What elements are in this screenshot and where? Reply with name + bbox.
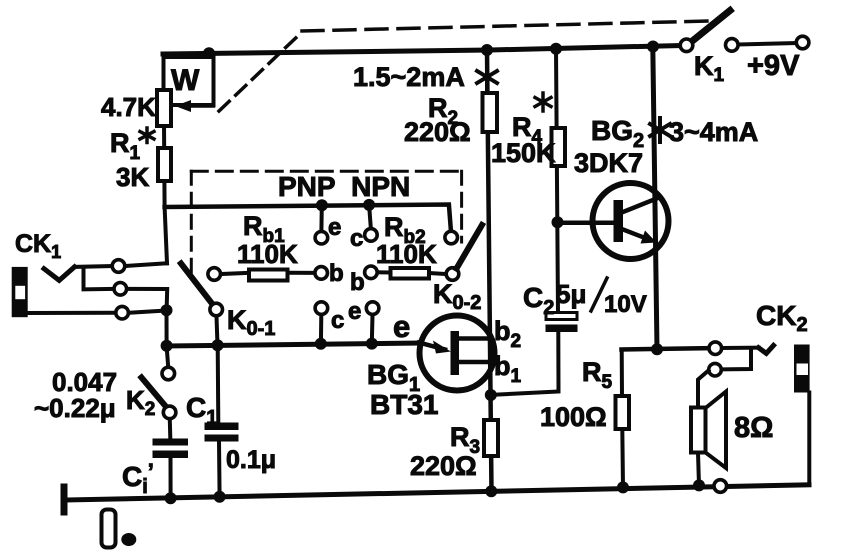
svg-text:3K: 3K bbox=[116, 162, 149, 192]
node BG2 collector top junction bbox=[647, 41, 659, 53]
resistor Rb1 110K bbox=[221, 273, 249, 274]
wire CK1 sleeve to lower node bbox=[129, 311, 166, 313]
node b1 / R3 / C2 junction bbox=[485, 389, 497, 401]
svg-text:e: e bbox=[348, 298, 361, 325]
svg-text:100Ω: 100Ω bbox=[540, 402, 607, 432]
node C1 top junction bbox=[212, 339, 224, 351]
wire speaker bottom bbox=[698, 453, 699, 486]
node CK1 sleeve terminal bbox=[116, 306, 129, 319]
ground terminal bar bbox=[61, 484, 68, 516]
svg-text:W: W bbox=[171, 64, 200, 97]
wire BG1 b1 stub bbox=[459, 360, 491, 365]
svg-text:+9V: +9V bbox=[747, 50, 800, 82]
node Ci ground junction bbox=[165, 492, 177, 504]
node K0-1 pivot bbox=[210, 303, 223, 316]
node c upper stub junction bbox=[363, 199, 375, 211]
wire BG2 base bbox=[558, 221, 614, 226]
svg-text:110K: 110K bbox=[376, 239, 437, 269]
node contact c lower bbox=[315, 302, 328, 315]
resistor R2 220 bbox=[483, 93, 498, 132]
node R4 top junction bbox=[550, 43, 562, 55]
wire CK1 tip to input line bbox=[126, 263, 168, 266]
node c lower stub junction bbox=[315, 338, 327, 350]
node CK2 break terminal bbox=[709, 363, 722, 376]
svg-text:c: c bbox=[350, 225, 363, 252]
node BG2 base junction bbox=[552, 216, 564, 228]
svg-text:8Ω: 8Ω bbox=[734, 412, 773, 444]
star mark R1 bbox=[140, 128, 154, 143]
jack CK1 break contact bbox=[84, 268, 114, 289]
wire left input branch (rail to CK1 tip) bbox=[164, 54, 168, 263]
capacitor C2 5u/10V bbox=[546, 313, 577, 320]
wire e lower stub bbox=[370, 315, 375, 344]
node C1 ground junction bbox=[214, 491, 226, 503]
node input lower junction bbox=[161, 304, 173, 316]
potentiometer wiper arrow bbox=[190, 104, 214, 108]
node contact c upper bbox=[365, 229, 378, 242]
resistor R1 3K bbox=[158, 148, 171, 181]
wire top supply rail bbox=[163, 46, 680, 55]
wire center column (R2 / base / R3) bbox=[487, 51, 492, 492]
node contact K0-2 upper bbox=[445, 231, 458, 244]
svg-text:PNP NPN: PNP NPN bbox=[278, 171, 410, 202]
resistor 4.7K bbox=[157, 90, 171, 126]
wire CK1 break terminal to lower node bbox=[127, 289, 167, 310]
resistor R4 150K bbox=[552, 128, 566, 166]
jack CK1 tip contact bbox=[44, 267, 75, 281]
svg-text:0.1μ: 0.1μ bbox=[226, 446, 276, 474]
potentiometer W bbox=[164, 57, 214, 105]
svg-text:3~4mA: 3~4mA bbox=[669, 117, 758, 147]
wire CK2 sleeve to ground rail bbox=[807, 393, 811, 486]
node Rb1 right terminal b bbox=[315, 267, 328, 280]
switch K2 upper contact bbox=[167, 346, 169, 367]
node R5 ground junction bbox=[617, 481, 629, 493]
node CK1 tip terminal bbox=[112, 260, 125, 273]
BG1 emitter arrow bbox=[419, 343, 445, 350]
node BG2 emitter junction bbox=[651, 343, 663, 355]
node CK1 break terminal bbox=[114, 283, 127, 296]
wire emitter row bbox=[167, 343, 420, 346]
wire base selector top row bbox=[165, 205, 451, 231]
jack CK2 tip contact bbox=[722, 346, 758, 350]
node Rb2 right terminal / K0-2 pivot bbox=[446, 268, 459, 281]
svg-text:e: e bbox=[328, 214, 341, 241]
wire R4 column bbox=[556, 49, 558, 313]
node battery terminal bbox=[796, 36, 809, 49]
wire c lower stub bbox=[319, 315, 323, 344]
jack CK1 plug body bbox=[12, 267, 28, 317]
resistor Rb2 110K bbox=[378, 270, 391, 274]
wire speaker top bbox=[698, 371, 709, 408]
node e upper stub junction bbox=[316, 199, 328, 211]
node CK2 sleeve contact on rail bbox=[714, 480, 727, 493]
svg-text:10V: 10V bbox=[604, 291, 647, 318]
svg-text:b: b bbox=[350, 269, 365, 296]
svg-text:c: c bbox=[331, 307, 344, 334]
svg-text:~0.22μ: ~0.22μ bbox=[34, 393, 116, 423]
switch K0-1 lever bbox=[181, 264, 214, 306]
wire lower node to emitter row bbox=[165, 310, 169, 346]
svg-text:4.7K: 4.7K bbox=[101, 92, 156, 122]
svg-text:220Ω: 220Ω bbox=[404, 117, 471, 147]
wire K0-1 pivot stub bbox=[217, 317, 218, 346]
star mark bias current bbox=[477, 65, 497, 89]
node R2 top junction bbox=[481, 44, 493, 56]
resistor R5 100 bbox=[620, 350, 624, 397]
wire BG1 b2 stub bbox=[459, 336, 491, 341]
svg-text:220Ω: 220Ω bbox=[410, 451, 477, 481]
node Rb1 left terminal bbox=[208, 268, 221, 281]
svg-text:5μ: 5μ bbox=[556, 279, 586, 309]
svg-text:110K: 110K bbox=[237, 239, 298, 269]
jack CK2 plug body bbox=[794, 345, 810, 393]
node contact e lower bbox=[366, 302, 379, 315]
ground probe symbol bbox=[102, 510, 116, 548]
node speaker ground junction bbox=[693, 479, 705, 491]
speaker 8ohm bbox=[691, 408, 706, 453]
svg-text:1.5~2mA: 1.5~2mA bbox=[353, 62, 465, 92]
star mark R4 bbox=[535, 93, 551, 111]
node CK2 tip terminal bbox=[709, 342, 722, 355]
node e lower stub junction bbox=[366, 338, 378, 350]
svg-text:3DK7: 3DK7 bbox=[574, 148, 643, 178]
wire BG2 collector-emitter column bbox=[653, 47, 657, 350]
node contact e upper bbox=[315, 231, 328, 244]
node emitter row left end bbox=[161, 340, 173, 352]
star mark BG2 bbox=[650, 118, 670, 142]
wire K1 to battery bbox=[739, 43, 796, 45]
resistor R3 220 bbox=[484, 420, 498, 456]
wire CK2 break contact bbox=[722, 350, 751, 369]
transistor BG1 BT31 bbox=[420, 316, 495, 391]
svg-text:BT31: BT31 bbox=[370, 389, 438, 420]
node W top junction bbox=[203, 47, 215, 59]
wire ground rail bbox=[67, 485, 809, 500]
jack CK1 sleeve wire bbox=[28, 311, 115, 315]
node R3 ground junction bbox=[485, 485, 497, 497]
dashed ganged linkage W to K1 bbox=[219, 32, 302, 111]
node K2 pivot bbox=[163, 406, 176, 419]
capacitor C1 0.1u bbox=[216, 345, 221, 422]
switch K0-2 lever bbox=[457, 225, 483, 269]
dashed selector enclosure bbox=[191, 170, 465, 173]
node Rb2 left terminal b bbox=[365, 266, 378, 279]
svg-text:150K: 150K bbox=[491, 138, 556, 168]
wire c upper stub bbox=[369, 205, 371, 228]
wire R5 top row bbox=[622, 348, 709, 349]
capacitor Ci 0.047-0.22u bbox=[168, 419, 173, 438]
switch K1 bbox=[691, 11, 731, 43]
switch K2 lever bbox=[142, 378, 168, 409]
wire e upper stub bbox=[319, 205, 323, 231]
transistor BG2 3DK7 bbox=[593, 183, 669, 259]
svg-text:b: b bbox=[329, 260, 344, 287]
svg-text:e: e bbox=[393, 309, 410, 344]
